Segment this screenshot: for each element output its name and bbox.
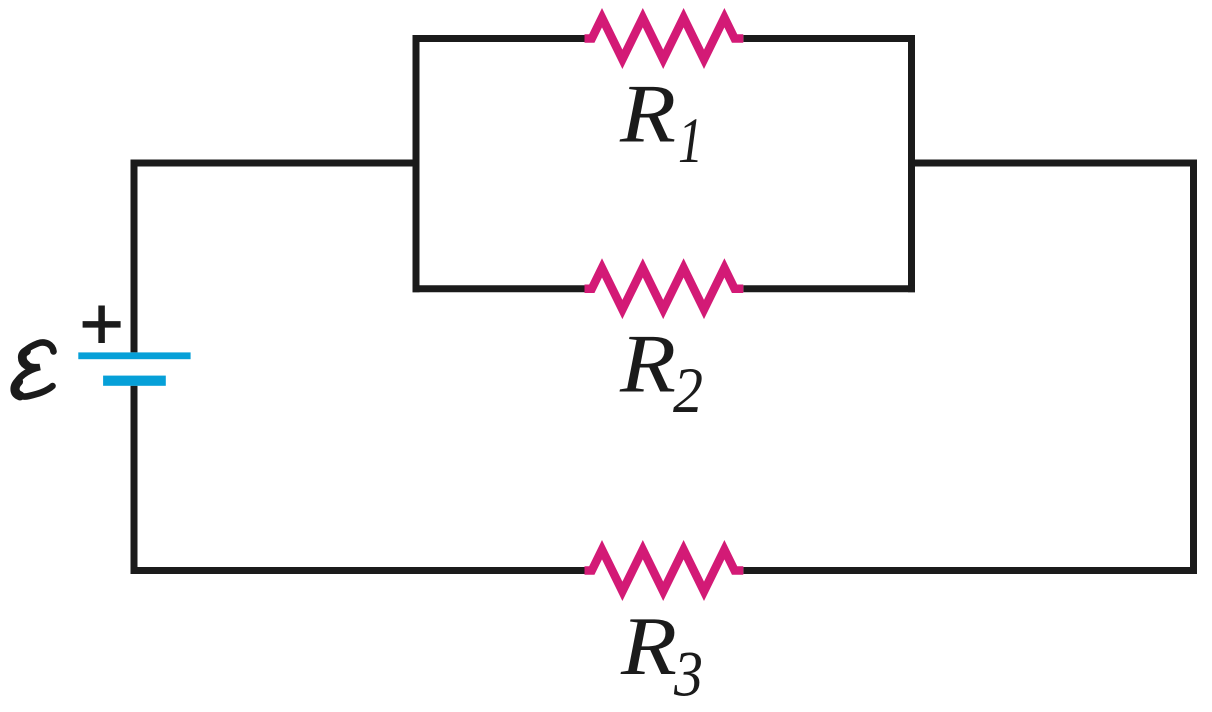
svg-text:3: 3 [673,639,703,711]
svg-text:R: R [620,600,677,693]
svg-text:2: 2 [673,355,703,427]
svg-text:1: 1 [678,105,703,177]
svg-text:R: R [619,68,676,161]
svg-text:R: R [619,318,676,411]
